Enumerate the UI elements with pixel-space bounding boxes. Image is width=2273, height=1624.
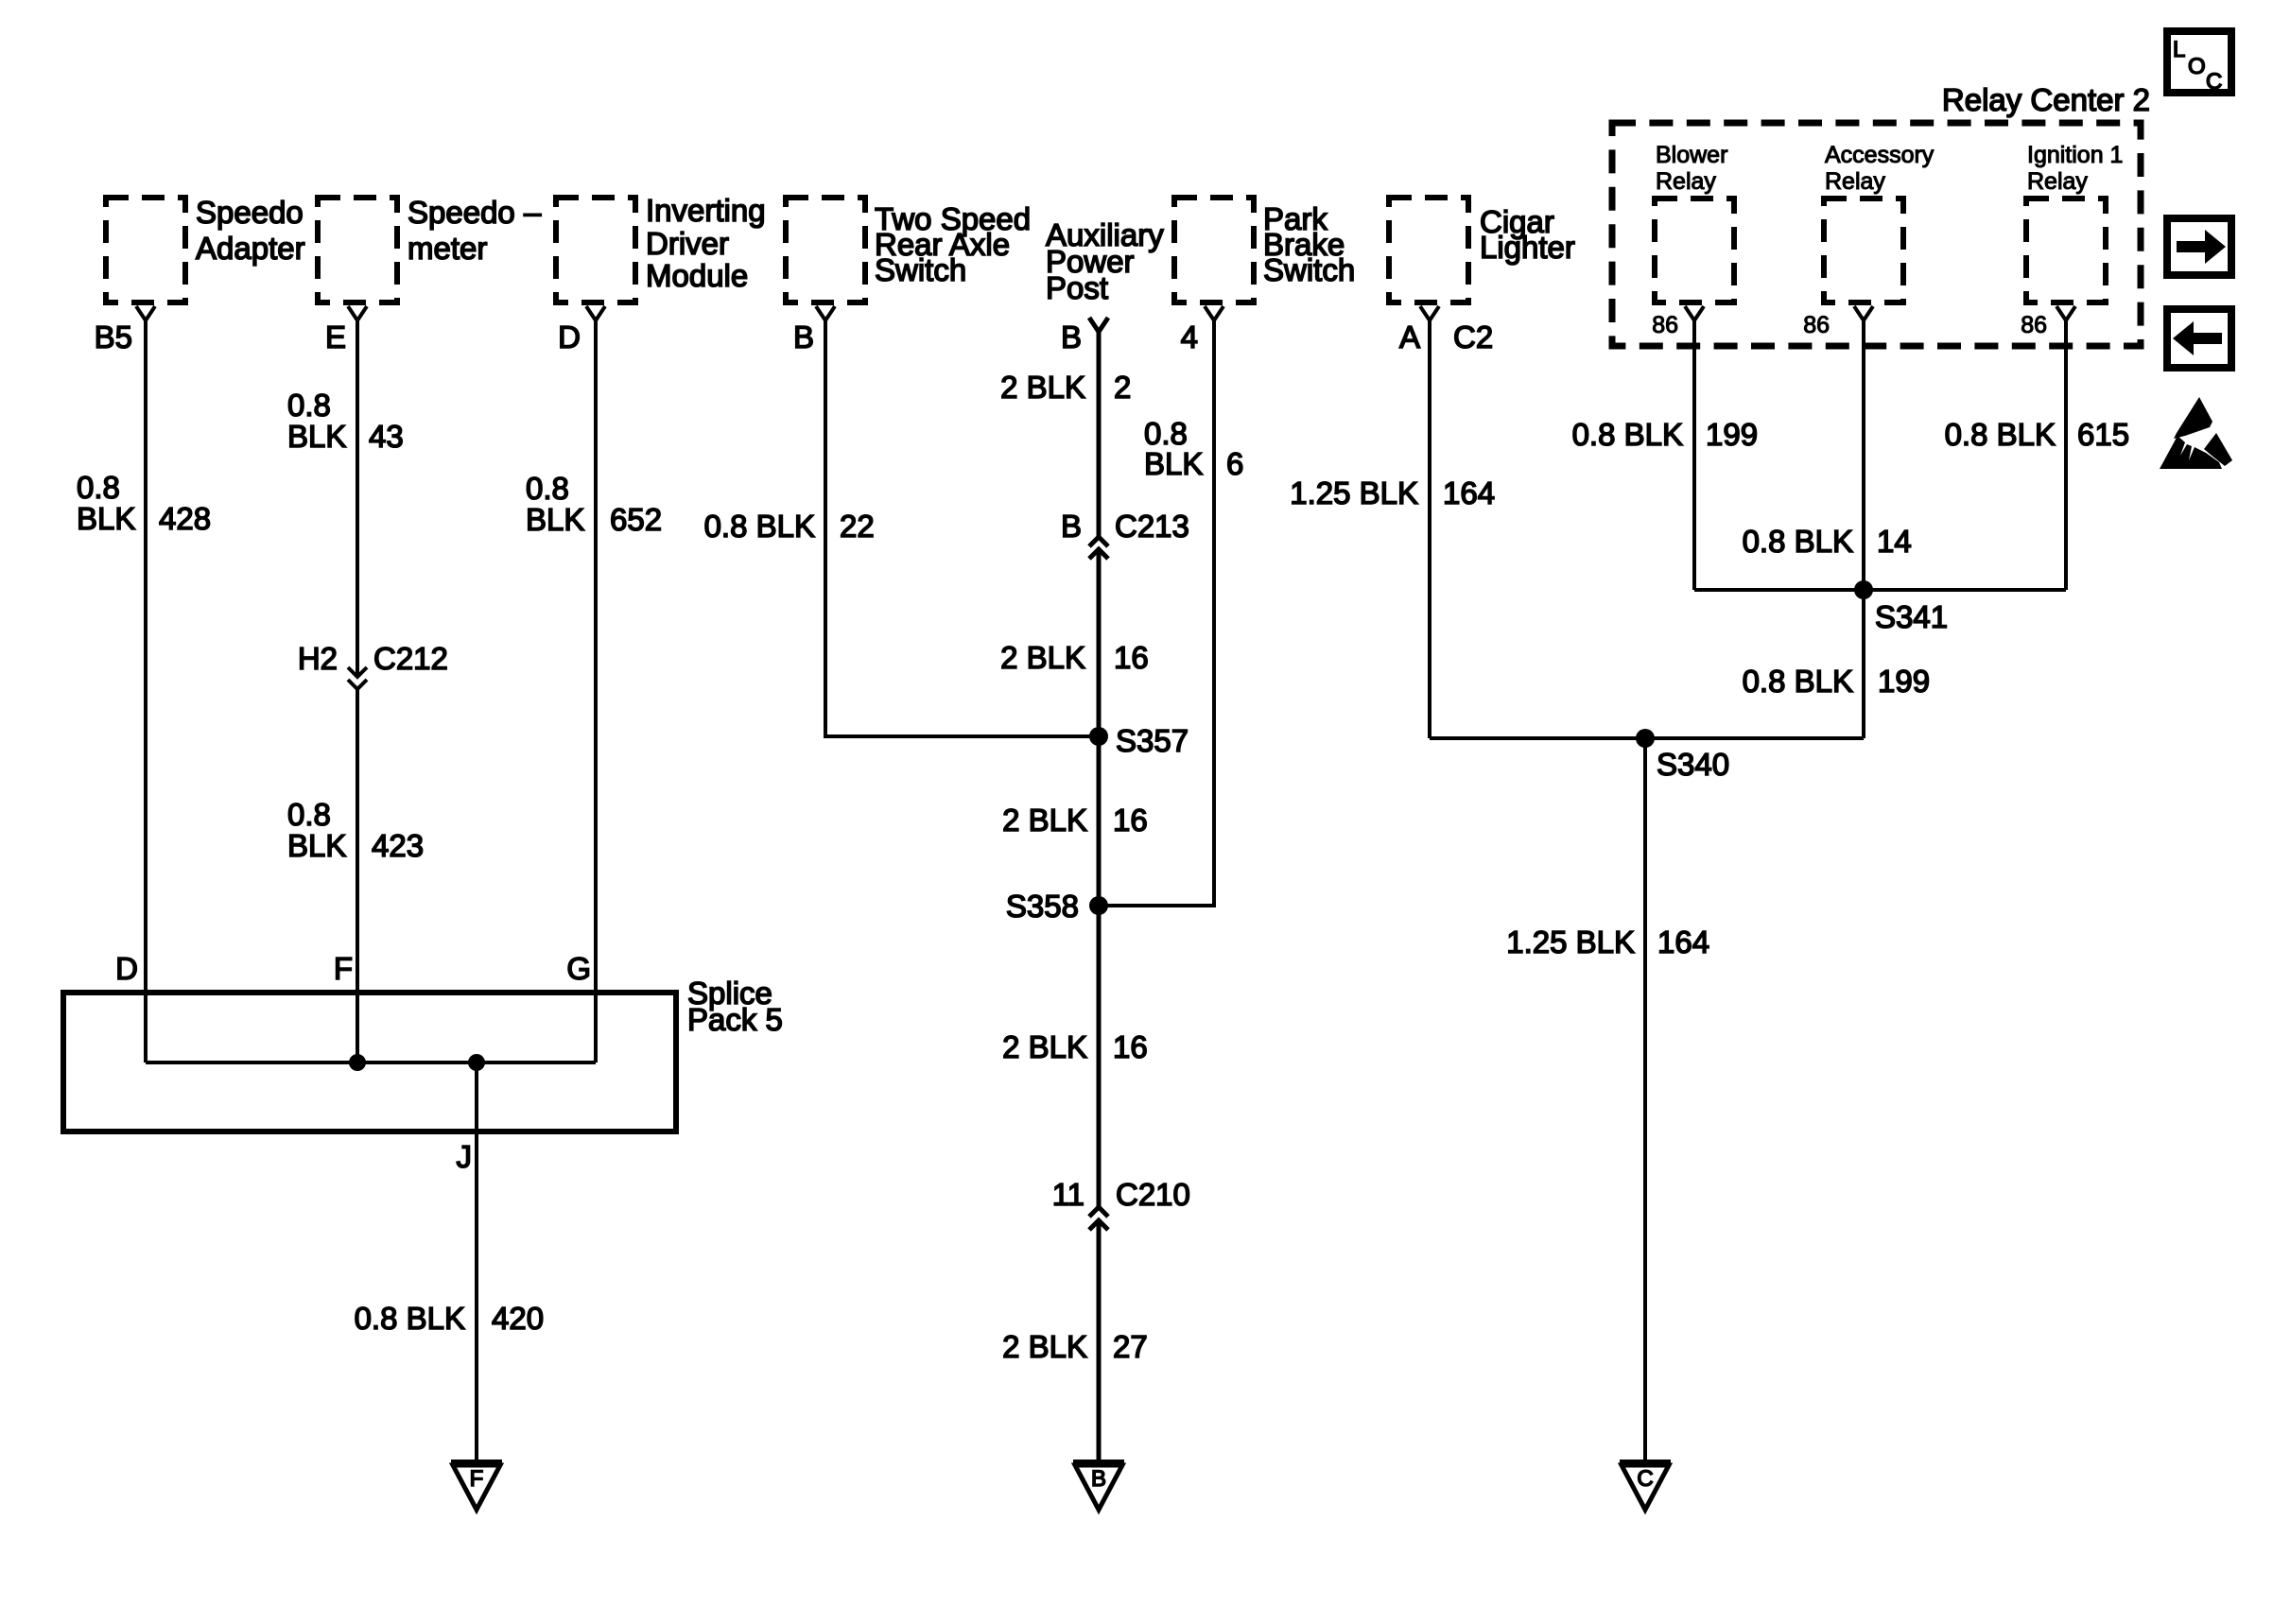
svg-text:O: O xyxy=(2188,54,2206,79)
splice S358 xyxy=(1006,889,1108,924)
pin D of Inverting Driver Module xyxy=(558,306,605,354)
svg-text:A: A xyxy=(1399,320,1420,354)
svg-text:S358: S358 xyxy=(1006,889,1079,924)
esd sensitivity icon xyxy=(2160,397,2232,469)
svg-text:0.8 BLK: 0.8 BLK xyxy=(1743,664,1853,699)
svg-text:615: 615 xyxy=(2077,417,2129,452)
svg-text:1.25 BLK: 1.25 BLK xyxy=(1290,475,1418,510)
svg-text:B: B xyxy=(1091,1466,1106,1492)
svg-text:16: 16 xyxy=(1113,1029,1148,1064)
svg-text:423: 423 xyxy=(372,828,424,863)
svg-text:Speedo –: Speedo – xyxy=(408,195,542,230)
svg-text:0.8 BLK: 0.8 BLK xyxy=(704,509,815,544)
svg-text:1.25 BLK: 1.25 BLK xyxy=(1506,924,1635,959)
svg-text:16: 16 xyxy=(1114,640,1149,675)
svg-text:0.8 BLK: 0.8 BLK xyxy=(1743,524,1853,559)
svg-text:L: L xyxy=(2173,37,2185,62)
svg-text:164: 164 xyxy=(1443,475,1495,510)
svg-text:Driver: Driver xyxy=(646,226,729,261)
svg-text:Lighter: Lighter xyxy=(1480,230,1575,265)
in-line connector C212 pin H2 xyxy=(298,641,448,689)
pin B of Auxiliary Power Post xyxy=(1061,318,1108,354)
in-line connector C210 pin 11 xyxy=(1052,1177,1190,1230)
connector box Park Brake Switch xyxy=(1174,198,1355,302)
svg-text:0.8 BLK: 0.8 BLK xyxy=(355,1301,465,1336)
svg-text:S340: S340 xyxy=(1657,747,1729,782)
component label Auxiliary Power Post xyxy=(1046,217,1164,305)
svg-text:G: G xyxy=(566,951,591,986)
wire 1.25 BLK 164 from S340 to ground C xyxy=(1506,738,1709,1461)
pin 86 of Blower Relay xyxy=(1652,306,1704,338)
connector box Speedometer xyxy=(318,195,542,302)
svg-text:F: F xyxy=(470,1466,484,1492)
svg-text:4: 4 xyxy=(1181,320,1198,354)
pin 86 of Ignition 1 Relay xyxy=(2021,306,2075,338)
svg-text:420: 420 xyxy=(492,1301,544,1336)
svg-text:S341: S341 xyxy=(1875,599,1948,634)
junction dot F on splice bus xyxy=(349,1054,366,1071)
wire 0.8 BLK 43 from Speedometer E to connector C212 xyxy=(287,320,404,677)
svg-text:Adapter: Adapter xyxy=(196,231,305,266)
svg-text:B: B xyxy=(793,320,814,354)
svg-text:D: D xyxy=(115,951,138,986)
svg-text:BLK: BLK xyxy=(1144,446,1203,481)
ground B xyxy=(1073,1462,1124,1510)
wire 0.8 BLK 6 from Park Brake Switch to splice S358 xyxy=(1099,320,1243,906)
svg-text:Relay: Relay xyxy=(2027,168,2088,195)
svg-text:0.8: 0.8 xyxy=(287,388,331,423)
svg-text:H2: H2 xyxy=(298,641,338,676)
relay box Blower Relay xyxy=(1655,142,1734,302)
wire 0.8 BLK 423 from C212 to Splice Pack 5 F xyxy=(287,689,424,1063)
wire 0.8 BLK 428 from Speedo Adapter B5 to Splice Pack 5 D xyxy=(77,320,211,1063)
svg-text:C212: C212 xyxy=(373,641,448,676)
svg-text:B5: B5 xyxy=(95,320,132,354)
wire S340 bus xyxy=(1430,736,1864,740)
svg-text:2 BLK: 2 BLK xyxy=(1002,1029,1087,1064)
wire 0.8 BLK 199 from S341 to S340 xyxy=(1743,590,1930,738)
svg-text:Speedo: Speedo xyxy=(196,195,304,230)
splice pack 5 box xyxy=(63,976,783,1132)
svg-text:meter: meter xyxy=(408,231,487,266)
wire S341 bus xyxy=(1694,588,2066,592)
svg-text:Switch: Switch xyxy=(1263,252,1355,287)
svg-text:2 BLK: 2 BLK xyxy=(1000,640,1085,675)
wire 1.25 BLK 164 from Cigar Lighter to splice S340 xyxy=(1290,320,1495,738)
svg-text:C: C xyxy=(1637,1466,1653,1492)
wire 0.8 BLK 420 from Splice Pack 5 J to ground F xyxy=(355,1063,544,1461)
svg-text:Relay Center 2: Relay Center 2 xyxy=(1942,82,2150,117)
pin B of Two Speed Rear Axle Switch xyxy=(793,306,835,354)
wire 2 BLK 16 from S358 to connector C210 xyxy=(1002,906,1148,1207)
svg-text:0.8: 0.8 xyxy=(77,470,120,505)
wire 0.8 BLK 14 from Accessory Relay to splice S341 xyxy=(1743,320,1912,590)
svg-text:43: 43 xyxy=(369,419,404,454)
svg-text:2: 2 xyxy=(1114,370,1131,405)
wire 2 BLK 16 from C213 to splice S357 xyxy=(1000,549,1149,736)
wire 0.8 BLK 652 from Inverting Driver Module D to Splice Pack 5 G xyxy=(526,320,662,1063)
junction dot J on splice bus xyxy=(468,1054,485,1071)
pin 4 of Park Brake Switch xyxy=(1181,306,1223,354)
svg-text:199: 199 xyxy=(1706,417,1758,452)
svg-text:C213: C213 xyxy=(1115,509,1189,544)
svg-text:2 BLK: 2 BLK xyxy=(1002,803,1087,838)
svg-text:2 BLK: 2 BLK xyxy=(1000,370,1085,405)
svg-text:16: 16 xyxy=(1113,803,1148,838)
svg-text:11: 11 xyxy=(1052,1177,1084,1212)
svg-text:6: 6 xyxy=(1226,446,1243,481)
svg-text:C: C xyxy=(2206,69,2222,95)
svg-text:86: 86 xyxy=(1652,312,1678,338)
svg-text:B: B xyxy=(1061,320,1082,354)
svg-text:27: 27 xyxy=(1113,1329,1148,1364)
loc reference icon xyxy=(2167,31,2231,95)
arrow left icon xyxy=(2167,309,2231,368)
svg-text:BLK: BLK xyxy=(77,501,135,536)
svg-text:199: 199 xyxy=(1878,664,1930,699)
splice pack terminal D xyxy=(115,951,138,986)
wire 2 BLK 16 from S357 to S358 xyxy=(1002,736,1148,906)
splice S341 xyxy=(1854,580,1948,634)
splice pack terminal F xyxy=(334,951,353,986)
splice S357 xyxy=(1089,723,1189,758)
connector box Cigar Lighter xyxy=(1389,198,1575,302)
svg-text:Relay: Relay xyxy=(1656,168,1716,195)
connector box Inverting Driver Module xyxy=(556,193,766,302)
svg-text:C2: C2 xyxy=(1453,320,1493,354)
svg-text:B: B xyxy=(1061,509,1082,544)
svg-text:D: D xyxy=(558,320,581,354)
svg-text:Module: Module xyxy=(646,258,748,293)
wire 2 BLK 2 from Auxiliary Power Post to connector C213 xyxy=(1000,332,1131,537)
svg-text:86: 86 xyxy=(2021,312,2047,338)
wire 0.8 BLK 199 from Blower Relay to splice S341 xyxy=(1572,320,1758,590)
in-line connector C213 pin B xyxy=(1061,509,1189,559)
svg-text:164: 164 xyxy=(1657,924,1709,959)
splice pack terminal J xyxy=(457,1139,473,1174)
wire splice pack internal bus xyxy=(146,1061,596,1064)
svg-text:F: F xyxy=(334,951,353,986)
wire 2 BLK 27 from C210 to ground B xyxy=(1002,1220,1148,1461)
svg-text:Pack 5: Pack 5 xyxy=(687,1002,783,1037)
svg-text:BLK: BLK xyxy=(287,828,346,863)
ground C xyxy=(1620,1462,1671,1510)
svg-text:S357: S357 xyxy=(1116,723,1189,758)
svg-text:0.8: 0.8 xyxy=(287,797,331,832)
svg-text:Switch: Switch xyxy=(875,252,966,287)
svg-text:652: 652 xyxy=(610,502,662,537)
svg-text:Blower: Blower xyxy=(1656,142,1727,168)
svg-text:2 BLK: 2 BLK xyxy=(1002,1329,1087,1364)
svg-text:Post: Post xyxy=(1046,270,1108,305)
pin 86 of Accessory Relay xyxy=(1803,306,1873,338)
svg-text:Relay: Relay xyxy=(1825,168,1885,195)
svg-text:0.8: 0.8 xyxy=(526,471,569,506)
svg-text:86: 86 xyxy=(1803,312,1830,338)
arrow right icon xyxy=(2167,218,2231,275)
relay box Accessory Relay xyxy=(1824,142,1935,302)
svg-text:Ignition 1: Ignition 1 xyxy=(2027,142,2123,168)
svg-text:0.8 BLK: 0.8 BLK xyxy=(1572,417,1683,452)
splice S340 xyxy=(1636,729,1729,782)
svg-text:Accessory: Accessory xyxy=(1825,142,1935,168)
splice pack terminal G xyxy=(566,951,591,986)
svg-text:22: 22 xyxy=(840,509,875,544)
wire 0.8 BLK 615 from Ignition 1 Relay to splice S341 xyxy=(1945,320,2129,590)
pin E of Speedometer xyxy=(325,306,367,354)
relay box Ignition 1 Relay xyxy=(2026,142,2123,302)
svg-text:J: J xyxy=(457,1139,473,1174)
connector box Speedo Adapter xyxy=(106,195,305,302)
pin B5 of Speedo Adapter xyxy=(95,306,155,354)
pin A of Cigar Lighter connector C2 xyxy=(1399,306,1493,354)
wire 0.8 BLK 22 from Two Speed Rear Axle Switch to splice S357 xyxy=(704,320,1099,736)
relay center 2 dashed enclosure xyxy=(1612,82,2150,346)
svg-text:Inverting: Inverting xyxy=(646,193,766,228)
svg-text:E: E xyxy=(325,320,346,354)
ground F xyxy=(451,1462,502,1510)
svg-text:BLK: BLK xyxy=(526,502,584,537)
svg-text:BLK: BLK xyxy=(287,419,346,454)
connector box Two Speed Rear Axle Switch xyxy=(786,198,1031,302)
svg-text:C210: C210 xyxy=(1116,1177,1190,1212)
svg-text:14: 14 xyxy=(1877,524,1912,559)
svg-text:0.8 BLK: 0.8 BLK xyxy=(1945,417,2056,452)
svg-text:428: 428 xyxy=(159,501,211,536)
